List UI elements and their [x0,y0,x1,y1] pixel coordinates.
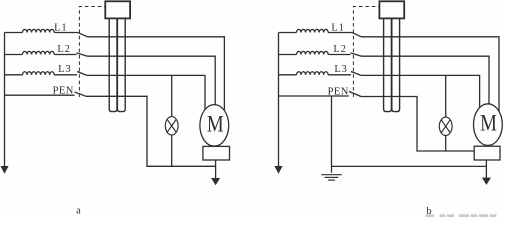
fuse tube 1 (a) [109,19,117,112]
svg-text:L1: L1 [54,23,67,34]
ground arrow left (system earth of transformer, circuit a) [4,33,6,168]
wire PEN (a) [5,94,75,96]
motor case earth lead + arrow (b) [485,160,487,178]
winding L1 (transformer coil, circuit a) [5,32,23,34]
switch blade PEN (a) [75,92,87,96]
switch blade L1 (b) [352,32,362,37]
switch blade L3 (b) [351,72,361,76]
watermark remnant bottom right [426,214,497,217]
switch blade L2 (a) [77,53,88,56]
wire L3 to switch (b) [328,74,351,76]
wire PEN (b) [279,95,349,97]
lamp EL (a) [171,75,173,117]
switch blade L3 (a) [77,72,87,76]
wire PEN after switch, down to loads (b) [361,97,474,152]
PEN earthing tee wire (b) [331,96,333,173]
svg-text:L1: L1 [331,23,344,34]
fuse box (b) [379,1,404,18]
motor terminal box (a) [203,146,230,160]
svg-text:a: a [76,206,81,217]
fuse box (a) [105,1,130,18]
motor M (b) [474,104,503,146]
svg-text:L2: L2 [57,44,70,55]
fuse tube 1 (b) [384,19,392,112]
earth bonding line to motor (b) [332,165,487,167]
switch blade L1 (a) [78,32,88,37]
winding L2 (transformer coil, circuit a) [5,54,23,56]
svg-text:M: M [480,111,497,136]
wire L1 after switch to motor (b) [361,37,499,113]
switch linkage dashed (b) [353,7,379,98]
motor terminal box (b) [474,146,500,160]
earth symbol (b) [321,174,342,176]
wire L1 after switch to motor (a) [87,37,224,113]
svg-text:L3: L3 [58,64,71,75]
svg-text:PEN: PEN [328,86,349,97]
wire L2 to switch (a) [54,54,76,56]
wire PEN after switch, down and to motor case (a) [86,96,216,166]
svg-text:L3: L3 [334,64,347,75]
wire L2 to switch (b) [328,54,350,56]
lamp EL (b) [445,75,447,117]
wire L3 after switch to motor (a) [87,75,205,112]
fuse tube 2 (a) [117,19,125,112]
wire L1 to switch (a) [54,32,77,34]
motor M (a) [200,105,229,147]
wire L2 after switch to motor (a) [88,56,216,105]
winding L2 (transformer coil, circuit b) [279,54,297,56]
wire L2 after switch to motor (b) [362,56,490,105]
winding L3 (transformer coil, circuit b) [279,74,297,76]
fuse tube 2 (b) [392,19,400,112]
svg-text:PEN: PEN [53,86,74,97]
svg-text:M: M [207,112,224,137]
wire L1 to switch (b) [328,32,351,34]
svg-text:L2: L2 [333,44,346,55]
ground arrow left (system earth of transformer, circuit b) [278,33,280,168]
motor case earth lead + arrow (a) [215,160,217,178]
wire L3 after switch to motor (b) [361,75,480,112]
winding L1 (transformer coil, circuit b) [279,32,297,34]
switch linkage dashed (a) [79,7,105,98]
winding L3 (transformer coil, circuit a) [5,74,23,76]
switch blade PEN (b) [349,91,361,96]
switch blade L2 (b) [351,53,362,56]
wire L3 to switch (a) [54,74,77,76]
